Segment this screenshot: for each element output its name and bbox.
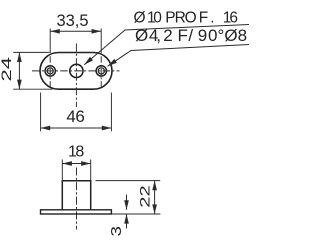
svg-text:18: 18 (68, 143, 84, 160)
hole right countersunk (Ø4,2 / Ø8) outer circle (96, 66, 106, 76)
leader 1 shelf (84, 25, 249, 65)
hole left inner circle (47, 68, 53, 74)
svg-text:22: 22 (138, 185, 153, 208)
svg-text:33,5: 33,5 (57, 12, 89, 30)
vertical centerline / extension line, left hole (49, 29, 51, 54)
leader 2 arrowhead at right hole (106, 59, 117, 68)
svg-text:3: 3 (108, 226, 125, 236)
leader 2 shelf (108, 45, 249, 67)
dimension 22 extension lines (96, 180, 161, 182)
dimension 24 line (18, 52, 20, 89)
dimension 18 line (62, 163, 90, 165)
plate outline (top view, obround 46x24) (40, 53, 112, 90)
svg-text:46: 46 (66, 107, 85, 126)
vertical centerline / extension line, right hole (100, 29, 102, 54)
dimension 24 extension lines (13, 51, 49, 53)
dimension 46 line (41, 127, 112, 129)
hole right inner circle (98, 68, 104, 74)
dimension 22 line (154, 181, 156, 214)
dimension 18 extension lines (61, 160, 63, 181)
side view: boss rectangle (62, 181, 90, 210)
leader 1 arrowhead at center hole (83, 57, 93, 67)
dimension 3 upper pointer (126, 195, 128, 210)
svg-text:Ø10PROF.16: Ø10PROF.16 (134, 9, 239, 26)
side view vertical centerline (76, 168, 78, 230)
hole left countersunk (Ø4,2 / Ø8) outer circle (45, 66, 55, 76)
dimension 33,5 line (50, 30, 101, 32)
svg-text:Ø4,2F/90°Ø8: Ø4,2F/90°Ø8 (135, 26, 247, 45)
horizontal centerline through holes (32, 70, 120, 72)
svg-text:24: 24 (0, 57, 14, 82)
dimension 3 lower pointer (126, 214, 128, 229)
hole center (Ø10) (70, 64, 83, 77)
dimension 46 extension lines (40, 93, 42, 132)
vertical centerline, center hole (75, 44, 77, 108)
side view: flange rectangle (41, 210, 112, 214)
